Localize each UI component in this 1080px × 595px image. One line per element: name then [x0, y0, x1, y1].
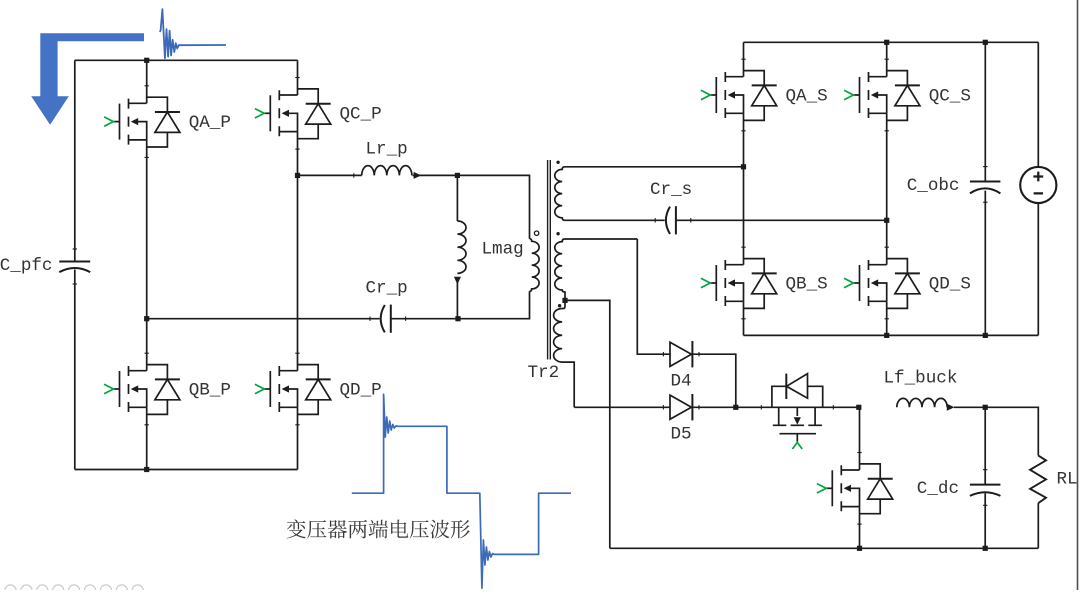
- node: S1 top lead / QA_S-QB_S midpoint: [741, 164, 746, 169]
- wire: D5 cathode to buck switch: [692, 406, 858, 408]
- node: Cr_s wire / QC_S-QD_S midpoint: [884, 218, 889, 223]
- wire: QA_S drain: [743, 42, 745, 76]
- node: right leg midpoint junction (Lr_p tap): [295, 173, 300, 178]
- transistor QC_S: [854, 71, 920, 121]
- wire: midpoint to Lr_p: [298, 174, 362, 176]
- wire: QC_S source to right-leg midpoint: [886, 113, 888, 264]
- annotation text: transformer voltage waveform (CJK as paths): [287, 519, 470, 538]
- wire: QA_S source to left-leg midpoint: [743, 113, 745, 264]
- node: Lf_buck / C_dc junction: [983, 405, 988, 410]
- node: bottom rail / C_obc junction: [983, 333, 988, 338]
- node: primary phase dot (hollow): [534, 231, 538, 235]
- node: buck switch output junction: [856, 405, 861, 410]
- frame right edge: [1077, 0, 1079, 590]
- node: center-tap junction: [562, 298, 567, 303]
- svg-text:QB_S: QB_S: [786, 274, 828, 294]
- capacitor Cr_p: [381, 305, 391, 333]
- transistor Q_dc: [826, 464, 892, 514]
- wire: QB_P source to bottom rail: [146, 407, 148, 469]
- node: bottom rail / QD_S junction: [884, 333, 889, 338]
- node: S3 phase dot: [558, 304, 561, 307]
- wire: left midpoint to Cr_p: [147, 318, 380, 320]
- svg-text:D5: D5: [671, 425, 692, 445]
- capacitor C_obc: [984, 42, 986, 181]
- capacitor C_pfc: [59, 262, 90, 273]
- svg-text:QA_P: QA_P: [189, 113, 231, 133]
- svg-text:Cr_p: Cr_p: [366, 279, 408, 299]
- svg-text:C_pfc: C_pfc: [0, 256, 53, 276]
- transformer Tr2 secondary winding S3 (bottom): [554, 300, 575, 407]
- node: bottom rail / C_dc junction: [983, 546, 988, 551]
- svg-text:Cr_s: Cr_s: [650, 180, 692, 200]
- transformer Tr2 core: [548, 160, 551, 360]
- svg-text:Lf_buck: Lf_buck: [884, 369, 958, 389]
- transistor QA_P: [114, 97, 180, 147]
- node: top rail / QA_P drain junction: [144, 58, 149, 63]
- wire: secondary bottom rail: [744, 334, 1039, 336]
- transistor QA_S: [710, 71, 776, 121]
- wire: QD_P source to bottom rail: [297, 407, 299, 469]
- resistor RL: [1030, 456, 1046, 504]
- wire: secondary top rail: [744, 41, 1039, 43]
- transistor QC_P: [264, 89, 330, 139]
- transistor QD_S: [854, 259, 920, 309]
- node: D4/D5 output junction: [733, 405, 738, 410]
- node: bottom rail / QB_P source junction: [144, 467, 149, 472]
- svg-text:RL: RL: [1057, 470, 1078, 490]
- inductor Lmag: [457, 221, 466, 273]
- svg-text:QB_P: QB_P: [189, 380, 231, 400]
- transistor QD_P: [264, 365, 330, 415]
- node: top rail / QC_S junction: [884, 40, 889, 45]
- wire: right leg midpoint (QC_P source - QD_P drain): [297, 132, 299, 371]
- wire: center tap to bottom rail: [565, 300, 610, 548]
- transistor QB_S: [710, 259, 776, 309]
- node: S1 phase dot: [556, 161, 559, 164]
- voltage source V_batt: [1037, 42, 1039, 335]
- wire: D4 cathode down to output line: [692, 354, 735, 407]
- wire: C_pfc branch upper: [74, 60, 76, 261]
- annotation ringing waveform (top, blue): [160, 9, 226, 58]
- wire: Q_dc source: [859, 507, 861, 549]
- wire: QB_S source: [743, 301, 745, 335]
- diode D4: [670, 341, 692, 367]
- wire: QC_P drain to top rail: [297, 60, 299, 95]
- wire: primary top rail: [75, 59, 298, 61]
- diode D5: [670, 394, 692, 420]
- node: Lmag top junction: [455, 173, 460, 178]
- wire: Cr_s to right-leg midpoint: [676, 219, 887, 221]
- wire: left leg midpoint (QA_P source - QB_P drain): [146, 140, 148, 371]
- svg-text:C_dc: C_dc: [917, 479, 959, 499]
- node: S2 phase dot: [556, 232, 559, 235]
- svg-text:QC_P: QC_P: [340, 105, 382, 125]
- node: bottom rail / Q_dc junction: [857, 546, 862, 551]
- svg-text:QC_S: QC_S: [929, 86, 971, 106]
- node: Lmag bottom junction: [455, 316, 460, 321]
- svg-text:QA_S: QA_S: [786, 86, 828, 106]
- decorative dots bottom-left: [5, 585, 143, 595]
- annotation square-wave waveform (blue): [352, 394, 571, 588]
- transistor QB_P: [114, 365, 180, 415]
- wire: S3 lead to D5 anode: [574, 406, 670, 408]
- svg-text:D4: D4: [671, 372, 692, 392]
- transformer Tr2 primary winding: [530, 239, 540, 292]
- wire: Lf_buck to output node: [954, 407, 1038, 455]
- wire: QD_S source: [886, 301, 888, 335]
- wire: Lr_p to transformer primary top: [420, 175, 530, 238]
- inductor Lf_buck: [897, 398, 947, 407]
- wire: C_pfc branch lower: [74, 270, 76, 470]
- transformer Tr2 secondary winding S2 (middle): [555, 239, 638, 300]
- annotation arrow (blue elbow arrow, top-left): [31, 33, 144, 125]
- capacitor C_dc: [984, 407, 986, 484]
- wire: output bottom rail: [610, 547, 1039, 549]
- wire: S2 lead down to D4: [637, 239, 670, 354]
- wire: Cr_p to transformer primary bottom: [391, 291, 530, 318]
- inductor Lr_p: [362, 166, 412, 176]
- svg-text:QD_P: QD_P: [340, 380, 382, 400]
- transformer Tr2 secondary winding S1 (top): [555, 167, 744, 221]
- node: top rail / C_obc junction: [983, 40, 988, 45]
- svg-text:Lmag: Lmag: [482, 240, 524, 260]
- svg-text:Tr2: Tr2: [528, 363, 560, 383]
- wire: primary bottom rail: [75, 469, 298, 471]
- capacitor Cr_s: [666, 206, 676, 234]
- wire: Q_dc drain: [859, 407, 861, 470]
- node: left leg midpoint junction: [144, 316, 149, 321]
- wire: QC_S drain: [886, 42, 888, 76]
- wire: QA_P drain to top rail: [146, 60, 148, 103]
- svg-text:QD_S: QD_S: [929, 274, 971, 294]
- svg-text:Lr_p: Lr_p: [366, 140, 408, 160]
- svg-text:C_obc: C_obc: [907, 176, 960, 196]
- transistor Q_buck (horizontal MOSFET): [772, 374, 823, 442]
